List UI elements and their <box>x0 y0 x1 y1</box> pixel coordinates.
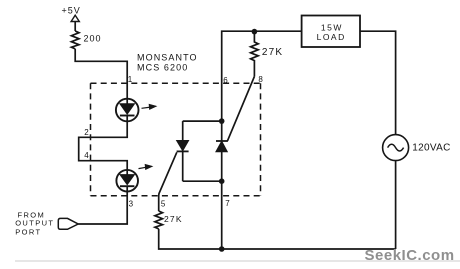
svg-text:6: 6 <box>223 76 228 85</box>
gate wire SCR Q1 to pin 5 <box>159 152 177 211</box>
svg-text:120VAC: 120VAC <box>412 143 450 154</box>
optocoupler dashed box <box>91 83 261 196</box>
wire Q2 to pin 7 and bottom rail <box>221 121 223 249</box>
SCR Q2 (conducts up) <box>216 141 227 152</box>
AC source 120VAC <box>383 135 409 161</box>
svg-text:200: 200 <box>84 34 102 44</box>
svg-text:1: 1 <box>128 75 133 84</box>
svg-text:OUTPUT: OUTPUT <box>15 219 54 228</box>
gate wire pin 8 to SCR Q2 <box>228 77 255 141</box>
SCR Q1 left anode wire <box>182 121 184 140</box>
junction dot top rail <box>252 29 258 35</box>
resistor R2 27K top <box>251 32 259 63</box>
wire SCR pair bottom bar <box>183 180 222 182</box>
SCR Q1 (conducts down) <box>177 141 189 151</box>
resistor R3 27K bottom <box>155 211 163 229</box>
svg-text:27K: 27K <box>164 214 183 224</box>
junction dot bottom rail <box>219 246 225 252</box>
SCR Q1 cathode wire <box>182 151 184 181</box>
LED D1 <box>116 99 139 122</box>
junction dot <box>219 178 225 184</box>
wire pin6 riser and top rail <box>222 31 302 121</box>
svg-text:2: 2 <box>84 128 89 137</box>
load box 15W <box>302 16 360 48</box>
wire R2 to pin 8 <box>253 63 255 77</box>
connector plug <box>58 218 78 229</box>
resistor R1 200 <box>71 31 79 49</box>
light arrow D1 <box>142 107 151 108</box>
LED D2 <box>116 170 138 192</box>
svg-text:PORT: PORT <box>15 227 41 236</box>
junction dot <box>219 118 225 124</box>
svg-text:MCS 6200: MCS 6200 <box>137 63 188 73</box>
wire AC source to bottom rail <box>395 161 397 249</box>
+5V arrow terminal <box>71 15 79 21</box>
svg-text:3: 3 <box>129 200 134 209</box>
wire D1 cathode to pin 2 jog to pin 4 <box>79 116 128 175</box>
svg-text:LOAD: LOAD <box>317 32 346 42</box>
svg-text:MONSANTO: MONSANTO <box>137 53 198 63</box>
wire R3 to bottom rail <box>159 229 396 249</box>
scan artifact line <box>15 260 460 262</box>
wire +5V to R1 <box>74 22 76 32</box>
svg-text:8: 8 <box>258 75 263 84</box>
SCR Q2 cathode bar <box>216 140 228 142</box>
svg-text:7: 7 <box>225 199 230 208</box>
wire load to right rail <box>360 31 396 134</box>
svg-text:27K: 27K <box>262 47 283 58</box>
svg-text:4: 4 <box>84 151 89 160</box>
wire SCR pair top bar <box>183 120 222 122</box>
wire R1 to pin 1 <box>75 49 127 104</box>
svg-text:SeekIC.com: SeekIC.com <box>365 247 455 264</box>
svg-text:+5V: +5V <box>62 6 81 16</box>
svg-text:15W: 15W <box>321 22 343 32</box>
light arrow D2 <box>139 167 147 168</box>
svg-text:5: 5 <box>161 200 166 209</box>
wire D2 cathode pin 3 to connector <box>78 186 127 224</box>
